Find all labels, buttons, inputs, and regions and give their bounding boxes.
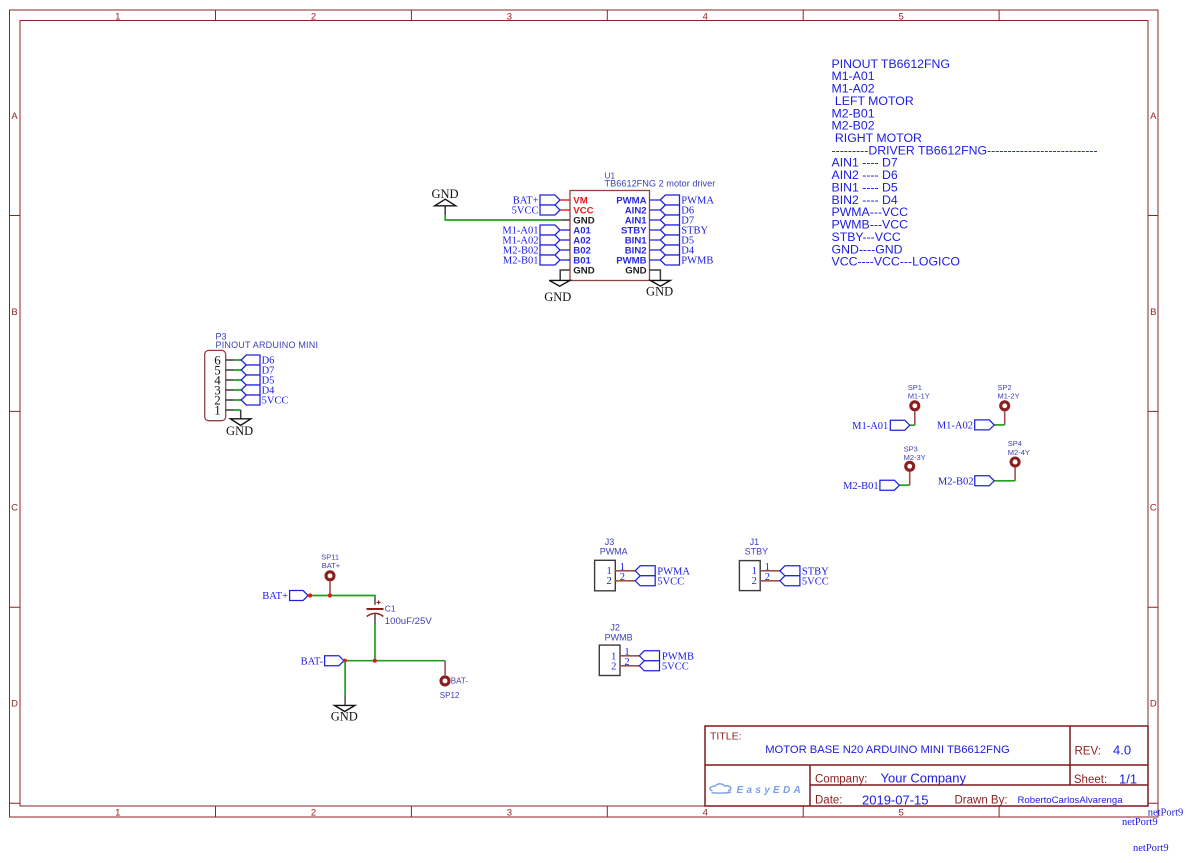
net flag M1-A01 at SP1 — [890, 420, 910, 430]
capacitor C1 top plate — [367, 608, 384, 610]
J1 pin stubs — [760, 571, 780, 581]
svg-text:D: D — [11, 698, 18, 709]
wire SP1 to M1-A01 flag — [910, 424, 915, 426]
net flag STBY at U1 — [660, 225, 679, 235]
svg-text:M1-1Y: M1-1Y — [908, 391, 930, 400]
svg-text:GND: GND — [226, 424, 253, 438]
solder point SP1 pad ring — [911, 402, 919, 410]
svg-text:BAT-: BAT- — [301, 656, 324, 667]
net flag M1-A02 at SP2 — [975, 420, 995, 430]
U1 pin VCC stub — [560, 209, 570, 211]
svg-text:4.0: 4.0 — [1113, 743, 1131, 758]
connector P3 body — [205, 350, 226, 420]
net flag 5VCC at J2 — [639, 661, 659, 671]
U1 pin A01 stub — [560, 229, 570, 231]
svg-text:M2-B01: M2-B01 — [843, 481, 879, 492]
U1 pin VM stub — [560, 199, 570, 201]
svg-text:BAT-: BAT- — [451, 676, 469, 685]
title block logo cell divider — [809, 765, 811, 806]
svg-text:Date:: Date: — [815, 795, 843, 807]
svg-text:5VCC: 5VCC — [657, 576, 684, 587]
svg-text:MOTOR BASE N20 ARDUINO MINI TB: MOTOR BASE N20 ARDUINO MINI TB6612FNG — [765, 744, 1010, 756]
net flag M1-A02 at U1 — [540, 235, 560, 245]
svg-text:PWMB: PWMB — [605, 633, 633, 643]
capacitor C1 bottom plate arc — [367, 613, 384, 616]
title block border — [705, 726, 1148, 806]
capacitor C1 top pin — [374, 598, 376, 605]
P3 pin wires green — [234, 360, 241, 410]
net flag D4 at P3 — [241, 385, 260, 395]
solder point SP12 pad ring — [441, 677, 449, 685]
SP4 pin wire — [1014, 468, 1016, 481]
svg-text:SP12: SP12 — [440, 691, 460, 700]
wire BAT+ net horizontal — [308, 596, 375, 598]
net flag M2-B01 at U1 — [540, 255, 560, 265]
net flag D4 at U1 — [660, 245, 679, 255]
svg-text:A: A — [1150, 111, 1157, 122]
pinout notes text block — [832, 57, 1098, 269]
svg-text:J2: J2 — [610, 623, 620, 633]
svg-text:100uF/25V: 100uF/25V — [385, 616, 433, 627]
svg-text:M1-A02: M1-A02 — [937, 421, 973, 432]
net flag PWMA at J3 — [635, 566, 655, 576]
net flag D7 at U1 — [660, 215, 679, 225]
net flag 5VCC at J1 — [780, 576, 800, 586]
svg-text:netPort9: netPort9 — [1122, 817, 1158, 828]
SP11 pin wire — [329, 581, 331, 595]
net flag PWMB at J2 — [639, 651, 659, 661]
svg-text:GND: GND — [625, 266, 646, 277]
svg-text:GND: GND — [646, 285, 673, 299]
svg-text:B: B — [11, 307, 17, 318]
J3 pin stubs — [615, 571, 635, 581]
ground stub BAT- — [344, 695, 346, 706]
svg-text:M2-B02: M2-B02 — [938, 476, 974, 487]
P3 pin stubs black — [226, 360, 235, 410]
junction BAT+ flag — [308, 593, 312, 597]
svg-text:PINOUT ARDUINO MINI: PINOUT ARDUINO MINI — [216, 340, 319, 350]
svg-text:2: 2 — [311, 11, 316, 22]
ground symbol at BAT- — [335, 705, 355, 711]
svg-text:TB6612FNG 2 motor driver: TB6612FNG 2 motor driver — [605, 179, 716, 189]
svg-text:1: 1 — [214, 402, 221, 417]
svg-text:5VCC: 5VCC — [262, 396, 289, 407]
connector J3 body — [595, 560, 616, 591]
connector J2 body — [599, 645, 620, 675]
SP1 pin wire — [914, 411, 916, 425]
svg-text:TITLE:: TITLE: — [710, 730, 742, 742]
wire GND net to U1 — [445, 215, 560, 220]
net flag M2-B01 at SP3 — [880, 480, 900, 490]
svg-text:VCC----VCC---LOGICO: VCC----VCC---LOGICO — [832, 255, 960, 269]
svg-text:1: 1 — [115, 11, 120, 22]
svg-text:1/1: 1/1 — [1119, 772, 1137, 787]
svg-text:J1: J1 — [750, 537, 760, 547]
capacitor C1 bottom pin — [374, 613, 376, 624]
net flag 5VCC at J3 — [635, 576, 655, 586]
svg-text:2: 2 — [607, 576, 612, 587]
net flag 5VCC at U1 — [540, 205, 560, 215]
wire P3 pin1 to ground — [240, 410, 242, 419]
U1 pin B02 stub — [560, 249, 570, 251]
svg-text:5VCC: 5VCC — [802, 576, 829, 587]
net flag M2-B02 at U1 — [540, 245, 560, 255]
svg-text:GND: GND — [544, 290, 571, 304]
net flag D5 at P3 — [241, 375, 260, 385]
wire C1 to BAT- net — [374, 624, 376, 660]
SP3 pin wire — [909, 472, 911, 485]
title block rev column divider — [1069, 726, 1071, 785]
svg-text:Company:: Company: — [815, 774, 867, 786]
wire SP4 to M2-B02 flag — [994, 480, 1015, 482]
svg-text:RobertoCarlosAlvarenga: RobertoCarlosAlvarenga — [1018, 795, 1124, 806]
net flag D6 at U1 — [660, 205, 679, 215]
svg-text:PWMB: PWMB — [681, 256, 713, 267]
svg-text:STBY: STBY — [745, 547, 769, 557]
svg-text:5VCC: 5VCC — [512, 206, 539, 217]
svg-text:J3: J3 — [605, 537, 615, 547]
IC U1 TB6612FNG body — [570, 191, 650, 281]
svg-text:3: 3 — [507, 11, 512, 22]
net flag D7 at P3 — [241, 365, 260, 375]
net flag STBY at J1 — [780, 566, 800, 576]
ground symbol U1 bottom-left — [549, 280, 570, 286]
svg-text:C1: C1 — [385, 604, 396, 614]
solder point SP2 pad ring — [1001, 402, 1009, 410]
svg-text:netPort9: netPort9 — [1133, 843, 1169, 854]
svg-text:Sheet:: Sheet: — [1074, 774, 1107, 786]
solder point SP4 pad ring — [1011, 458, 1019, 466]
svg-text:A: A — [11, 111, 18, 122]
SP2 pin wire — [1004, 411, 1006, 425]
junction BAT+ SP11 — [328, 593, 332, 597]
solder point SP3 pad ring — [906, 462, 914, 470]
svg-text:EasyEDA: EasyEDA — [737, 785, 805, 796]
junction BAT- C1 — [373, 659, 377, 663]
U1 pin GND stub — [560, 219, 570, 221]
SP12 pin wire — [444, 661, 446, 676]
svg-text:5VCC: 5VCC — [662, 661, 689, 672]
power flag GND top-left — [431, 187, 458, 215]
net flag D5 at U1 — [660, 235, 679, 245]
net flag PWMA at U1 — [660, 195, 679, 205]
svg-text:2: 2 — [611, 661, 616, 672]
U1 bottom-right GND wire — [650, 270, 661, 280]
connector J1 body — [739, 561, 760, 591]
U1 bottom-left GND wire — [560, 270, 570, 280]
svg-text:5: 5 — [899, 11, 904, 22]
net flag BAT- battery negative — [325, 656, 344, 666]
svg-text:4: 4 — [703, 808, 708, 819]
svg-text:C: C — [1150, 503, 1157, 514]
svg-text:B: B — [1150, 307, 1156, 318]
svg-text:C: C — [11, 503, 18, 514]
svg-text:BAT+: BAT+ — [262, 591, 288, 602]
net flag M2-B02 at SP4 — [975, 476, 994, 486]
svg-text:PWMA: PWMA — [600, 547, 628, 557]
net flag 5VCC at P3 — [241, 395, 260, 405]
svg-text:GND: GND — [573, 266, 594, 277]
wire SP3 to M2-B01 flag — [899, 484, 909, 486]
title block sheet/date divider — [810, 784, 1148, 786]
svg-text:1: 1 — [115, 808, 120, 819]
U1 right pin stubs — [650, 200, 661, 260]
ground symbol at P3 — [230, 419, 251, 426]
EasyEDA logo icon — [710, 784, 731, 793]
capacitor C1 plus sign — [377, 600, 381, 604]
net flag D6 at P3 — [241, 355, 260, 365]
svg-text:2019-07-15: 2019-07-15 — [862, 793, 929, 808]
svg-text:4: 4 — [703, 11, 708, 22]
svg-text:M2-3Y: M2-3Y — [904, 453, 926, 462]
solder point SP11 pad ring — [326, 572, 334, 580]
svg-text:D: D — [1150, 698, 1157, 709]
svg-text:Your Company: Your Company — [881, 771, 967, 786]
svg-text:M1-2Y: M1-2Y — [998, 391, 1020, 400]
svg-text:2: 2 — [752, 576, 757, 587]
U1 pin A02 stub — [560, 239, 570, 241]
ground symbol U1 bottom-right — [650, 280, 670, 286]
title block row divider — [705, 764, 1148, 766]
J2 pin stubs — [620, 656, 639, 666]
svg-text:M2-4Y: M2-4Y — [1008, 448, 1030, 457]
net flag M1-A01 at U1 — [540, 225, 560, 235]
svg-text:M1-A01: M1-A01 — [852, 421, 888, 432]
svg-text:3: 3 — [507, 808, 512, 819]
wire BAT- net horizontal — [344, 660, 445, 662]
wire SP2 to M1-A02 flag — [994, 424, 1005, 426]
svg-text:M2-B01: M2-B01 — [503, 256, 539, 267]
svg-text:REV:: REV: — [1075, 745, 1101, 757]
svg-text:Drawn By:: Drawn By: — [955, 795, 1008, 807]
wire BAT- down to ground — [344, 661, 346, 695]
svg-text:GND: GND — [331, 710, 358, 724]
net flag BAT+ battery positive — [290, 591, 309, 601]
svg-text:BAT+: BAT+ — [322, 561, 341, 570]
net flag BAT+ at U1 — [540, 195, 560, 205]
svg-text:GND: GND — [431, 187, 458, 201]
net flag PWMB at U1 — [660, 255, 679, 265]
svg-text:5: 5 — [899, 808, 904, 819]
svg-text:2: 2 — [311, 808, 316, 819]
U1 pin B01 stub — [560, 259, 570, 261]
junction BAT- flag — [343, 659, 347, 663]
